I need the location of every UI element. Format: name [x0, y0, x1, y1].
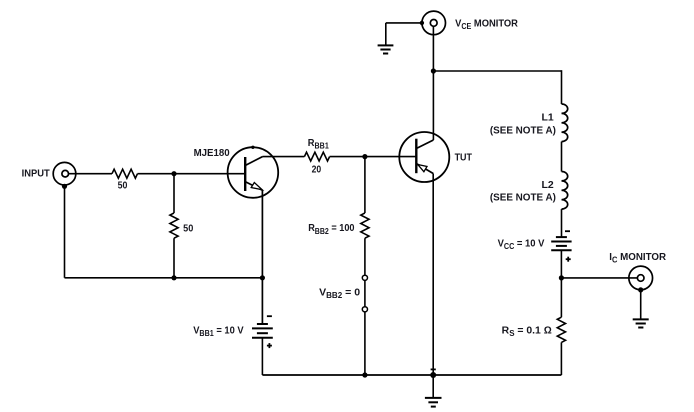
wire MJE180 emitter down to battery	[261, 190, 263, 324]
resistor R2 50 vertical	[170, 213, 178, 238]
wire TUT collector up	[432, 26, 434, 140]
terminal circle VBB2 bottom	[362, 307, 367, 312]
wire TUT emitter down	[432, 174, 434, 376]
wire node to R2	[173, 174, 175, 213]
ground G1	[378, 45, 394, 53]
wire R_BB2 to VBB2 terminal	[364, 238, 366, 275]
svg-text:VCC = 10 V: VCC = 10 V	[498, 238, 545, 251]
svg-text:IC MONITOR: IC MONITOR	[609, 252, 666, 265]
inductor L1	[562, 104, 568, 142]
svg-text:VBB1 = 10 V: VBB1 = 10 V	[193, 325, 244, 338]
wire to ground G3	[432, 375, 434, 398]
wire RS to bottom rail	[560, 342, 562, 375]
connector J2 V_CE MONITOR	[422, 11, 446, 35]
svg-text:L2: L2	[542, 180, 555, 191]
wire VCE connector left	[386, 22, 422, 24]
resistor R_S	[557, 317, 565, 342]
wire left rail	[65, 277, 263, 279]
node rail emitter/ground	[430, 372, 436, 378]
resistor R_BB2	[361, 213, 369, 238]
wire corner down	[561, 70, 563, 104]
node rail R2	[171, 275, 176, 280]
node collector/top	[431, 68, 436, 73]
svg-text:MJE180: MJE180	[194, 148, 230, 159]
minus sign VBB1	[267, 315, 272, 317]
battery V_BB1	[252, 324, 273, 338]
wire node to IC monitor	[561, 277, 637, 279]
svg-text:L1: L1	[542, 112, 555, 123]
wire node to R_BB2	[364, 157, 366, 213]
minus sign VCC	[565, 230, 570, 232]
tick above rail	[431, 368, 436, 370]
connector J3 I_C MONITOR	[629, 266, 653, 290]
wire VBB2 to bottom rail	[364, 312, 366, 375]
node rail VBB2	[362, 372, 367, 377]
wire R_BB1 to TUT base	[330, 156, 417, 158]
plus sign VBB1	[267, 343, 272, 348]
wire input down	[64, 185, 66, 278]
wire MJE180 collector horizontal	[263, 156, 305, 158]
svg-text:(SEE NOTE A): (SEE NOTE A)	[490, 192, 556, 203]
svg-text:RBB2 = 100: RBB2 = 100	[308, 223, 355, 236]
wire R1 to MJE180 base	[138, 173, 246, 175]
svg-text:RS = 0.1 Ω: RS = 0.1 Ω	[502, 325, 552, 338]
node junction input/R2	[171, 171, 176, 176]
wire battery to bottom rail	[261, 338, 263, 375]
terminal circle VBB2 top	[362, 275, 367, 280]
svg-text:TUT: TUT	[455, 152, 473, 163]
battery V_CC	[551, 237, 571, 250]
resistor R 50 horizontal	[112, 169, 137, 178]
svg-text:20: 20	[312, 164, 322, 175]
svg-text:INPUT: INPUT	[22, 169, 51, 180]
transistor Q1 MJE180	[228, 146, 279, 198]
connector J1 INPUT	[53, 162, 76, 185]
resistor R_BB1	[304, 152, 329, 161]
transistor Q2 TUT	[399, 132, 449, 182]
node connector left	[420, 21, 424, 25]
wire L1 to L2	[561, 142, 563, 172]
node R_BB1/R_BB2	[362, 154, 367, 159]
wire between VBB2 terminals	[364, 280, 366, 306]
svg-text:VCE MONITOR: VCE MONITOR	[455, 18, 518, 31]
node input bottom	[62, 184, 67, 189]
svg-text:50: 50	[118, 181, 128, 192]
wire VCC to node	[560, 250, 562, 317]
ground G3	[425, 398, 442, 407]
node IC connector bottom	[638, 287, 643, 292]
ground G2	[633, 319, 649, 327]
svg-text:VBB2 = 0: VBB2 = 0	[319, 288, 360, 301]
wire IC connector to ground	[640, 290, 642, 319]
inductor L2	[562, 172, 568, 210]
node VCC/IC monitor	[559, 275, 564, 280]
wire input to R1	[69, 173, 113, 175]
wire bottom rail	[262, 374, 561, 376]
wire down to ground 1	[385, 23, 387, 46]
wire R2 bottom to left rail	[173, 238, 175, 278]
wire top rail to L1	[433, 70, 561, 72]
wire L2 to VCC	[561, 209, 563, 237]
svg-text:50: 50	[183, 223, 193, 234]
plus sign VCC	[566, 257, 571, 262]
svg-text:RBB1: RBB1	[308, 138, 330, 151]
node rail emitter	[260, 275, 265, 280]
svg-text:(SEE NOTE A): (SEE NOTE A)	[490, 125, 556, 136]
